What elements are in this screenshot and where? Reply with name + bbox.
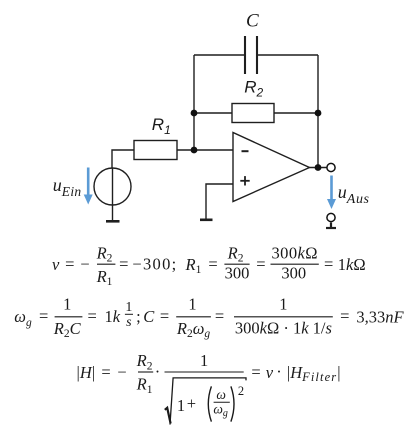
svg-text:−: −: [80, 255, 89, 274]
svg-text:|HFilter|: |HFilter|: [287, 363, 341, 384]
svg-text:=: =: [88, 307, 97, 326]
arrow u_Aus: [327, 176, 336, 210]
svg-text:R1: R1: [96, 267, 113, 288]
svg-text:300kΩ: 300kΩ: [272, 243, 318, 262]
svg-text:ωg: ωg: [213, 401, 228, 419]
svg-text:+: +: [187, 394, 196, 413]
svg-text:C: C: [246, 11, 259, 32]
svg-text:=: =: [65, 255, 74, 274]
output terminal stem: [330, 223, 332, 228]
svg-text:300: 300: [281, 263, 306, 282]
node junction dot right R2: [315, 110, 322, 117]
svg-text:·: ·: [155, 362, 161, 381]
svg-text:R1: R1: [152, 115, 171, 137]
svg-text:uAus: uAus: [338, 182, 370, 207]
svg-text:300: 300: [225, 263, 250, 282]
svg-text:R2: R2: [227, 243, 244, 264]
op-amp minus sign: [242, 150, 249, 152]
formula 2: omega_g = 1/(R2 C) = 1k 1/s; C = 1/(R2 omega_g) = ... = 3,33nF: [14, 295, 404, 341]
svg-text:v: v: [52, 255, 60, 274]
svg-text:=: =: [340, 307, 349, 326]
svg-text:1: 1: [279, 295, 287, 314]
ground source: [106, 220, 120, 223]
svg-text:1: 1: [177, 396, 185, 415]
svg-text:s: s: [126, 315, 132, 330]
svg-text:=: =: [119, 255, 128, 274]
svg-text:=: =: [324, 255, 333, 274]
bottom terminal open circle: [327, 213, 335, 221]
svg-text:R2: R2: [96, 243, 113, 264]
formula 3: |H| = -R2/R1 . 1/sqrt(1+(w/wg)^2) = v . |H_Filter|: [77, 351, 341, 424]
wire R2 right: [274, 112, 318, 114]
svg-text:=: =: [215, 307, 224, 326]
svg-text:1: 1: [125, 300, 132, 315]
wire left rail node A: [193, 55, 195, 150]
svg-text:3,33nF: 3,33nF: [356, 307, 404, 326]
output terminal bar: [326, 227, 336, 229]
capacitor C: [245, 36, 257, 74]
wire non-inverting input: [206, 184, 233, 219]
node junction dot left R2: [191, 110, 198, 117]
resistor R1: [134, 141, 177, 160]
svg-text:=: =: [39, 307, 48, 326]
svg-text:300kΩ · 1k 1/s: 300kΩ · 1k 1/s: [235, 319, 332, 338]
node junction dot output: [315, 164, 322, 171]
svg-text:R2: R2: [136, 351, 153, 372]
svg-text:|H|: |H|: [77, 363, 96, 382]
wire R2 left: [194, 112, 232, 114]
wire R1 to inverting input: [177, 149, 233, 151]
omega/omega_g small fraction: [214, 401, 230, 403]
resistor R2: [232, 104, 274, 123]
op-amp U1: [233, 133, 310, 202]
svg-text:R2ωg: R2ωg: [176, 319, 211, 340]
left paren: [208, 386, 211, 421]
svg-text:v: v: [266, 363, 274, 382]
svg-text:ωg: ωg: [14, 307, 32, 329]
svg-text:C: C: [143, 307, 155, 326]
svg-text:ω: ω: [216, 387, 226, 402]
svg-text:=: =: [256, 255, 265, 274]
formula 1: v = -R2/R1 = -300; R1 = R2/300 = 300kOhm/300 = 1kOhm: [52, 243, 366, 288]
wire source to R1: [112, 150, 134, 168]
voltage source internal line: [112, 168, 114, 205]
svg-text:·: ·: [276, 362, 282, 381]
ground non-inverting input: [200, 219, 213, 222]
wire source to ground: [112, 205, 114, 221]
op-amp plus sign: [240, 176, 249, 185]
svg-text:R2C: R2C: [53, 319, 82, 340]
wire right rail output node: [317, 55, 319, 168]
svg-text:uEin: uEin: [53, 175, 82, 199]
svg-text:−: −: [117, 363, 126, 382]
svg-text:1: 1: [200, 351, 208, 370]
svg-text:R1: R1: [136, 375, 153, 396]
wire capacitor branch left: [194, 54, 245, 56]
svg-text:2: 2: [238, 384, 244, 398]
svg-text:1kΩ: 1kΩ: [338, 255, 366, 274]
wire capacitor branch right: [258, 54, 319, 56]
right paren: [231, 386, 234, 421]
svg-text:−300;: −300;: [132, 255, 177, 274]
svg-text:1k: 1k: [105, 307, 121, 326]
svg-text:R1: R1: [185, 255, 202, 276]
node junction dot inverting input: [191, 147, 198, 154]
svg-text:=: =: [101, 363, 110, 382]
wire op-amp output: [310, 167, 328, 169]
svg-text:1: 1: [188, 295, 196, 314]
svg-text:;: ;: [136, 307, 141, 326]
svg-text:R2: R2: [244, 78, 263, 100]
voltage source V1 circle: [94, 168, 131, 205]
radical sign: [165, 408, 171, 424]
svg-text:=: =: [160, 307, 169, 326]
output terminal open circle: [327, 163, 335, 171]
arrow u_Ein: [84, 168, 93, 205]
svg-text:=: =: [208, 255, 217, 274]
svg-text:1: 1: [63, 295, 71, 314]
svg-text:=: =: [251, 363, 260, 382]
